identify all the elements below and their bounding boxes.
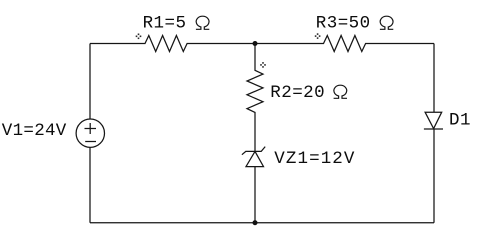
svg-text:VZ1=12V: VZ1=12V — [274, 149, 355, 169]
svg-text:V1=24V: V1=24V — [2, 121, 67, 141]
svg-text:R1=5: R1=5 — [143, 14, 187, 34]
svg-text:R2=20: R2=20 — [270, 83, 325, 103]
svg-text:D1: D1 — [449, 110, 471, 130]
svg-text:R3=50: R3=50 — [316, 14, 371, 34]
